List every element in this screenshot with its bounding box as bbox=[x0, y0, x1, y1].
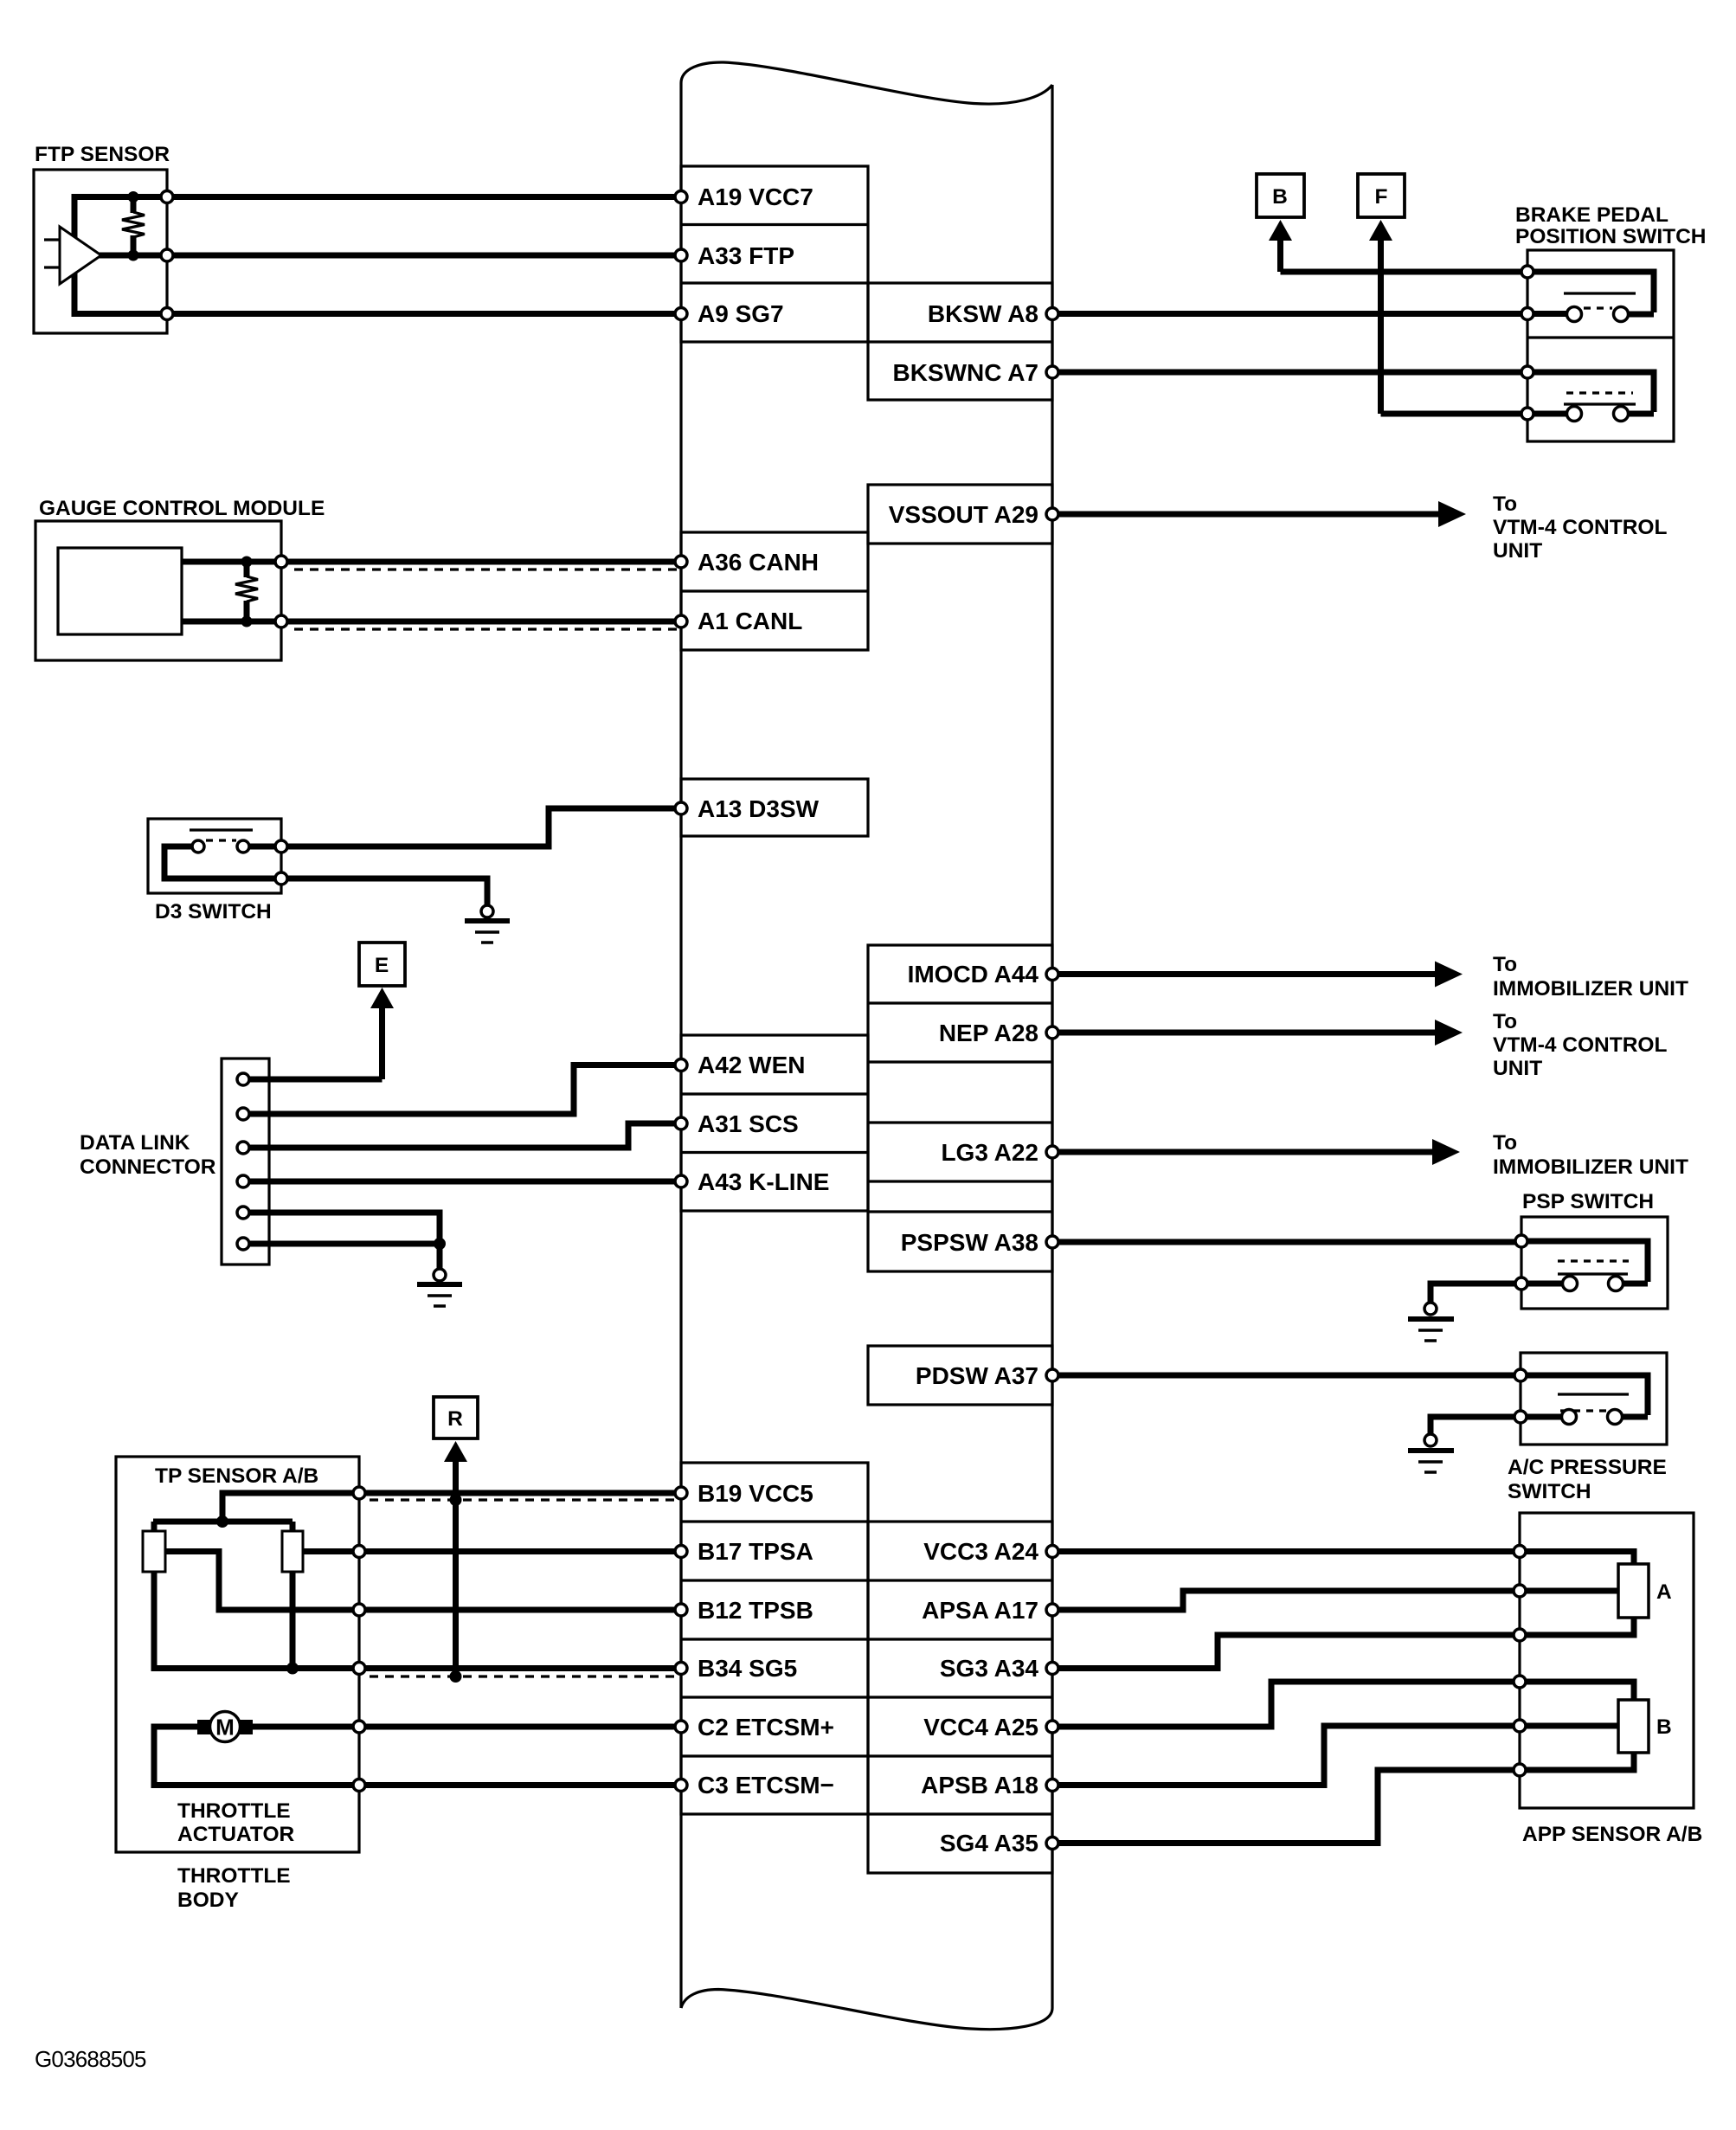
svg-text:VSSOUT A29: VSSOUT A29 bbox=[889, 501, 1038, 528]
wire DLC pin4 to A43 K-LINE bbox=[249, 1179, 675, 1185]
wire motor to C3 ETCSM- bbox=[154, 1727, 353, 1786]
pin label APSB A18 bbox=[921, 1772, 1038, 1799]
ECM/PCM connector band left edge bbox=[679, 83, 682, 2008]
wire TP sensor to B12 TPSB bbox=[365, 1607, 675, 1613]
svg-text:To: To bbox=[1493, 1131, 1517, 1155]
svg-text:A: A bbox=[1656, 1580, 1672, 1604]
wire APSA A17 to APP sensor bbox=[1058, 1591, 1514, 1610]
svg-text:G03688505: G03688505 bbox=[35, 2046, 146, 2072]
pin label C3 ETCSM- bbox=[698, 1772, 834, 1799]
wire throttle to C3 pin bbox=[365, 1782, 675, 1788]
pin label A36 CANH bbox=[698, 549, 819, 576]
pin label IMOCD A44 bbox=[908, 961, 1039, 988]
gauge module terminal circles bbox=[275, 556, 287, 627]
pin circle VCC3 A24 bbox=[1046, 1546, 1058, 1558]
svg-text:VTM-4 CONTROL: VTM-4 CONTROL bbox=[1493, 1033, 1667, 1057]
pin label A13 D3SW bbox=[698, 795, 820, 822]
svg-text:A31 SCS: A31 SCS bbox=[698, 1110, 799, 1137]
pin label NEP A28 bbox=[939, 1020, 1038, 1046]
svg-text:IMOCD A44: IMOCD A44 bbox=[908, 961, 1039, 988]
throttle actuator terminal circles bbox=[353, 1721, 365, 1792]
TP sensor potentiometer A bbox=[143, 1531, 165, 1572]
wire SG3 A34 to APP sensor bbox=[1058, 1635, 1514, 1669]
pin label BKSW A8 bbox=[928, 300, 1038, 327]
pin circle A42 bbox=[675, 1059, 687, 1071]
pin label VCC4 A25 bbox=[923, 1714, 1038, 1741]
pin circle VCC4 A25 bbox=[1046, 1721, 1058, 1733]
FTP sensor terminal circles bbox=[161, 191, 173, 320]
pin circle SG4 A35 bbox=[1046, 1837, 1058, 1850]
figure code G03688505 bbox=[35, 2046, 146, 2072]
APP sensor box bbox=[1520, 1513, 1694, 1808]
svg-text:B: B bbox=[1656, 1715, 1672, 1739]
twisted pair dashed line CANL bbox=[294, 627, 681, 630]
brake switch 2 (normally closed) bbox=[1521, 366, 1636, 421]
APP sensor pot A wires bbox=[1526, 1552, 1634, 1636]
wire TP sensor to B17 TPSA bbox=[365, 1548, 675, 1554]
wire gauge module to A36 CANH bbox=[287, 559, 675, 565]
wire TPSB from pot A bbox=[165, 1552, 353, 1611]
pin circle BKSW A8 bbox=[1046, 308, 1058, 320]
pin label LG3 A22 bbox=[941, 1139, 1038, 1166]
pin label PSPSW A38 bbox=[901, 1229, 1038, 1256]
twisted pair dashed line CANH bbox=[294, 568, 681, 570]
TP SENSOR A/B label bbox=[155, 1464, 318, 1488]
svg-text:C3 ETCSM−: C3 ETCSM− bbox=[698, 1772, 834, 1799]
wire DLC pin1 to E arrow bbox=[249, 1077, 383, 1083]
svg-text:A9 SG7: A9 SG7 bbox=[698, 300, 784, 327]
wire DLC pin3 to A31 SCS bbox=[249, 1123, 675, 1148]
TP sensor terminal circles bbox=[353, 1487, 365, 1675]
svg-text:APSA A17: APSA A17 bbox=[922, 1597, 1038, 1624]
pin circle APSB A18 bbox=[1046, 1779, 1058, 1792]
To IMMOBILIZER UNIT label (LG3) bbox=[1493, 1131, 1688, 1179]
svg-text:BKSW A8: BKSW A8 bbox=[928, 300, 1038, 327]
svg-text:PSPSW A38: PSPSW A38 bbox=[901, 1229, 1038, 1256]
To VTM-4 CONTROL UNIT label (VSSOUT) bbox=[1493, 492, 1667, 563]
wire D3 switch internal upper bbox=[249, 844, 275, 850]
wire DLC pin5 to ground junction bbox=[249, 1213, 440, 1244]
pin circle B19 bbox=[675, 1487, 687, 1499]
ECM/PCM band torn bottom edge bbox=[681, 1990, 1052, 2030]
FTP sensor box bbox=[34, 170, 167, 333]
svg-text:PSP SWITCH: PSP SWITCH bbox=[1522, 1190, 1654, 1213]
svg-text:SWITCH: SWITCH bbox=[1508, 1480, 1591, 1503]
wire BKSW A8 to brake switch 1 bbox=[1058, 311, 1568, 317]
svg-text:BODY: BODY bbox=[177, 1889, 239, 1912]
pin circle VSSOUT A29 bbox=[1046, 508, 1058, 520]
A/C PRESSURE SWITCH label bbox=[1508, 1456, 1667, 1503]
wire A/C pressure switch to ground bbox=[1431, 1417, 1562, 1434]
wire motor to C2 ETCSM+ bbox=[248, 1724, 353, 1730]
pin circle LG3 A22 bbox=[1046, 1146, 1058, 1158]
ground below PSP switch bbox=[1408, 1303, 1454, 1341]
ground below data link connector bbox=[417, 1269, 462, 1306]
pin label B34 SG5 bbox=[698, 1655, 797, 1682]
TP sensor potentiometer B bbox=[282, 1531, 303, 1572]
pin label A33 FTP bbox=[698, 242, 794, 269]
pin circle A43 bbox=[675, 1175, 687, 1187]
svg-text:D3 SWITCH: D3 SWITCH bbox=[155, 900, 272, 923]
pin box group A36/A1 bbox=[681, 532, 868, 650]
A/C pressure switch box bbox=[1521, 1353, 1667, 1445]
pin box group VCC3/APSA/SG3/VCC4/APSB/SG4 bbox=[868, 1522, 1052, 1873]
pin label BKSWNC A7 bbox=[892, 359, 1038, 386]
svg-text:B: B bbox=[1272, 185, 1288, 209]
pin circle PDSW A37 bbox=[1046, 1369, 1058, 1381]
svg-text:B17 TPSA: B17 TPSA bbox=[698, 1538, 813, 1565]
pin box group IMOCD/NEP/LG3/PSPSW bbox=[868, 945, 1052, 1271]
pin circle IMOCD A44 bbox=[1046, 968, 1058, 981]
wire NEP A28 arrow bbox=[1058, 1020, 1463, 1046]
svg-text:VCC3 A24: VCC3 A24 bbox=[923, 1538, 1038, 1565]
wire TPSA from pot B bbox=[303, 1548, 353, 1554]
svg-text:VCC4 A25: VCC4 A25 bbox=[923, 1714, 1038, 1741]
data link connector box bbox=[222, 1059, 269, 1264]
To IMMOBILIZER UNIT label (IMOCD) bbox=[1493, 953, 1688, 1001]
pin circle A13 bbox=[675, 802, 687, 814]
D3 switch symbol bbox=[190, 830, 253, 853]
svg-text:UNIT: UNIT bbox=[1493, 1057, 1542, 1080]
svg-text:To: To bbox=[1493, 492, 1517, 516]
svg-text:A33 FTP: A33 FTP bbox=[698, 242, 794, 269]
shield dashed line B34 SG5 bbox=[370, 1675, 681, 1677]
BRAKE PEDAL POSITION SWITCH label bbox=[1515, 203, 1707, 248]
brake pedal position switch box bbox=[1527, 250, 1674, 441]
pin label C2 ETCSM+ bbox=[698, 1714, 834, 1741]
wire SG4 A35 to APP sensor bbox=[1058, 1770, 1514, 1844]
svg-text:BKSWNC A7: BKSWNC A7 bbox=[892, 359, 1038, 386]
wire gauge module CANL internal bbox=[182, 619, 275, 625]
svg-text:A43 K-LINE: A43 K-LINE bbox=[698, 1168, 829, 1195]
resistor in gauge module bbox=[235, 557, 258, 627]
THROTTLE ACTUATOR label bbox=[177, 1799, 294, 1846]
junction R stem on B19 shield bbox=[450, 1494, 462, 1506]
resistor in FTP sensor bbox=[122, 191, 145, 261]
svg-text:B12 TPSB: B12 TPSB bbox=[698, 1597, 813, 1624]
wire FTP to A19 VCC7 bbox=[173, 194, 675, 200]
APP sensor pot B wires bbox=[1526, 1682, 1634, 1770]
wire PSPSW A38 to PSP switch bbox=[1058, 1241, 1648, 1284]
data link connector pin circles bbox=[237, 1073, 249, 1250]
wire D3 switch internal lower bbox=[164, 846, 275, 878]
svg-text:IMMOBILIZER UNIT: IMMOBILIZER UNIT bbox=[1493, 1155, 1688, 1179]
gauge control module outer box bbox=[35, 521, 281, 660]
shield dashed line B19 VCC5 bbox=[370, 1498, 681, 1501]
svg-text:To: To bbox=[1493, 953, 1517, 976]
connector box B bbox=[1257, 174, 1304, 217]
svg-text:A36 CANH: A36 CANH bbox=[698, 549, 819, 576]
pin box A13 bbox=[681, 779, 868, 836]
APP sensor terminal circles bbox=[1514, 1546, 1526, 1777]
pin label SG3 A34 bbox=[940, 1655, 1039, 1682]
pin circle A33 bbox=[675, 249, 687, 261]
svg-text:VTM-4 CONTROL: VTM-4 CONTROL bbox=[1493, 516, 1667, 539]
pin circle APSA A17 bbox=[1046, 1604, 1058, 1616]
pin circle A1 bbox=[675, 615, 687, 627]
pin circle NEP A28 bbox=[1046, 1026, 1058, 1039]
pin label SG4 A35 bbox=[940, 1830, 1038, 1857]
FTP SENSOR label bbox=[35, 143, 170, 166]
APP sensor potentiometer B bbox=[1618, 1700, 1672, 1753]
svg-text:BRAKE PEDAL: BRAKE PEDAL bbox=[1515, 203, 1668, 227]
wire FTP internal bottom bbox=[74, 260, 163, 314]
pin box group BKSW/BKSWNC bbox=[868, 283, 1052, 400]
To VTM-4 CONTROL UNIT label (NEP) bbox=[1493, 1010, 1667, 1080]
wire gauge module CANH internal bbox=[182, 559, 275, 565]
svg-text:B34 SG5: B34 SG5 bbox=[698, 1655, 797, 1682]
wire VSSOUT A29 arrow bbox=[1058, 501, 1466, 527]
ECM/PCM band torn top edge bbox=[681, 62, 1052, 104]
pin label A1 CANL bbox=[698, 608, 802, 634]
pin box group A19/A33/A9 bbox=[681, 166, 868, 342]
svg-text:A19 VCC7: A19 VCC7 bbox=[698, 183, 813, 210]
D3 SWITCH label bbox=[155, 900, 272, 923]
svg-text:FTP SENSOR: FTP SENSOR bbox=[35, 143, 170, 166]
pin circle SG3 A34 bbox=[1046, 1663, 1058, 1675]
pin box PDSW bbox=[868, 1346, 1052, 1405]
pin circle BKSWNC A7 bbox=[1046, 366, 1058, 378]
DATA LINK CONNECTOR label bbox=[80, 1131, 216, 1179]
pin circle C2 bbox=[675, 1721, 687, 1733]
connector box E bbox=[359, 943, 405, 986]
arrow to R bbox=[444, 1441, 467, 1677]
wire VCC4 A25 to APP sensor bbox=[1058, 1682, 1514, 1727]
GAUGE CONTROL MODULE label bbox=[39, 497, 325, 520]
pin circle C3 bbox=[675, 1779, 687, 1792]
arrow to F bbox=[1369, 220, 1392, 414]
pin label B17 TPSA bbox=[698, 1538, 813, 1565]
pin label A19 VCC7 bbox=[698, 183, 813, 210]
wire TP sensor to B19 VCC5 bbox=[365, 1490, 675, 1496]
pin circle A36 bbox=[675, 556, 687, 568]
PSP SWITCH label bbox=[1522, 1190, 1654, 1213]
svg-text:R: R bbox=[447, 1407, 463, 1431]
pin circle B12 bbox=[675, 1604, 687, 1616]
wire gauge module to A1 CANL bbox=[287, 619, 675, 625]
wire D3 switch to A13 D3SW bbox=[287, 808, 675, 846]
pin label A9 SG7 bbox=[698, 300, 784, 327]
ground below A/C pressure switch bbox=[1408, 1434, 1454, 1472]
pin label A43 K-LINE bbox=[698, 1168, 829, 1195]
svg-text:C2 ETCSM+: C2 ETCSM+ bbox=[698, 1714, 834, 1741]
THROTTLE BODY label bbox=[177, 1864, 291, 1912]
wire LG3 A22 arrow bbox=[1058, 1139, 1460, 1165]
svg-text:LG3 A22: LG3 A22 bbox=[941, 1139, 1038, 1166]
svg-text:TP SENSOR A/B: TP SENSOR A/B bbox=[155, 1464, 318, 1488]
svg-text:ACTUATOR: ACTUATOR bbox=[177, 1823, 294, 1846]
wire IMOCD A44 arrow bbox=[1058, 962, 1463, 988]
svg-text:CONNECTOR: CONNECTOR bbox=[80, 1155, 216, 1179]
svg-text:To: To bbox=[1493, 1010, 1517, 1033]
pin box group B19/B17/B12/B34/C2/C3 bbox=[681, 1463, 868, 1814]
arrow to B bbox=[1269, 220, 1292, 272]
svg-text:A/C PRESSURE: A/C PRESSURE bbox=[1508, 1456, 1667, 1479]
svg-text:B19 VCC5: B19 VCC5 bbox=[698, 1480, 813, 1507]
svg-text:M: M bbox=[215, 1715, 235, 1741]
pin circle PSPSW A38 bbox=[1046, 1236, 1058, 1248]
svg-text:APSB A18: APSB A18 bbox=[921, 1772, 1038, 1799]
brake switch 1 (normally open) bbox=[1521, 266, 1636, 322]
wire APSB A18 to APP sensor bbox=[1058, 1726, 1514, 1786]
pin circle A19 bbox=[675, 191, 687, 203]
connector box R bbox=[434, 1397, 478, 1438]
PSP switch contacts bbox=[1515, 1235, 1629, 1291]
wire F to brake switch 2 bbox=[1381, 411, 1567, 417]
D3 switch box bbox=[148, 819, 281, 893]
pin circle A31 bbox=[675, 1117, 687, 1129]
svg-text:E: E bbox=[375, 954, 389, 977]
op-amp symbol in FTP sensor bbox=[44, 227, 163, 284]
D3 switch terminal circles bbox=[275, 840, 287, 885]
wire FTP to A33 FTP bbox=[173, 253, 675, 259]
svg-text:THROTTLE: THROTTLE bbox=[177, 1864, 291, 1888]
arrow to E bbox=[370, 988, 394, 1079]
connector box F bbox=[1358, 174, 1405, 217]
wire D3 switch to ground bbox=[287, 878, 487, 905]
pin label A31 SCS bbox=[698, 1110, 799, 1137]
pin label B19 VCC5 bbox=[698, 1480, 813, 1507]
svg-text:F: F bbox=[1375, 185, 1388, 209]
wire DLC pin6 to ground bbox=[249, 1238, 446, 1269]
svg-text:IMMOBILIZER UNIT: IMMOBILIZER UNIT bbox=[1493, 977, 1688, 1001]
pin label A42 WEN bbox=[698, 1052, 805, 1078]
svg-text:GAUGE CONTROL MODULE: GAUGE CONTROL MODULE bbox=[39, 497, 325, 520]
wire VCC5 feed inside TP sensor bbox=[153, 1493, 353, 1531]
PSP switch box bbox=[1521, 1217, 1668, 1309]
wire PSP switch to ground bbox=[1431, 1284, 1563, 1303]
gauge control module inner box bbox=[58, 548, 182, 634]
wire SG5 from pots bbox=[154, 1572, 353, 1675]
svg-text:SG4 A35: SG4 A35 bbox=[940, 1830, 1038, 1857]
pin circle B34 bbox=[675, 1663, 687, 1675]
svg-text:A42 WEN: A42 WEN bbox=[698, 1052, 805, 1078]
pin label VCC3 A24 bbox=[923, 1538, 1038, 1565]
svg-text:THROTTLE: THROTTLE bbox=[177, 1799, 291, 1823]
svg-text:APP SENSOR A/B: APP SENSOR A/B bbox=[1522, 1823, 1702, 1846]
pin label APSA A17 bbox=[922, 1597, 1038, 1624]
junction R stem on B34 shield bbox=[450, 1670, 462, 1683]
pin box VSSOUT bbox=[868, 485, 1052, 544]
pin box group A42/A31/A43 bbox=[681, 1035, 868, 1211]
wire TP sensor to B34 SG5 bbox=[365, 1665, 675, 1671]
wire B to brake switch 1 bbox=[1281, 272, 1655, 314]
wire throttle to C2 pin bbox=[365, 1724, 675, 1730]
APP SENSOR A/B label bbox=[1522, 1823, 1702, 1846]
pin circle A9 bbox=[675, 308, 687, 320]
svg-text:SG3 A34: SG3 A34 bbox=[940, 1655, 1039, 1682]
svg-text:A13 D3SW: A13 D3SW bbox=[698, 795, 820, 822]
throttle body box bbox=[116, 1457, 359, 1852]
svg-text:A1 CANL: A1 CANL bbox=[698, 608, 802, 634]
pin label VSSOUT A29 bbox=[889, 501, 1038, 528]
wire FTP internal top bbox=[74, 197, 163, 252]
wire DLC pin2 to A42 WEN bbox=[249, 1065, 675, 1115]
APP sensor potentiometer A bbox=[1618, 1564, 1672, 1618]
wire VCC3 A24 to APP sensor bbox=[1058, 1548, 1514, 1554]
svg-text:DATA LINK: DATA LINK bbox=[80, 1131, 190, 1155]
svg-text:POSITION SWITCH: POSITION SWITCH bbox=[1515, 225, 1707, 248]
ground below D3 switch bbox=[465, 905, 510, 943]
throttle actuator motor M1 bbox=[197, 1712, 253, 1742]
ECM/PCM connector band right edge bbox=[1051, 85, 1053, 2008]
wire PDSW A37 to A/C pressure switch bbox=[1058, 1375, 1648, 1417]
pin label PDSW A37 bbox=[916, 1362, 1038, 1389]
wire FTP to A9 SG7 bbox=[173, 311, 675, 317]
svg-text:UNIT: UNIT bbox=[1493, 539, 1542, 563]
A/C pressure switch contacts bbox=[1514, 1369, 1629, 1425]
pin label B12 TPSB bbox=[698, 1597, 813, 1624]
svg-text:NEP A28: NEP A28 bbox=[939, 1020, 1038, 1046]
wire BKSWNC A7 to brake switch 2 bbox=[1058, 372, 1654, 414]
pin circle B17 bbox=[675, 1546, 687, 1558]
svg-text:PDSW A37: PDSW A37 bbox=[916, 1362, 1038, 1389]
